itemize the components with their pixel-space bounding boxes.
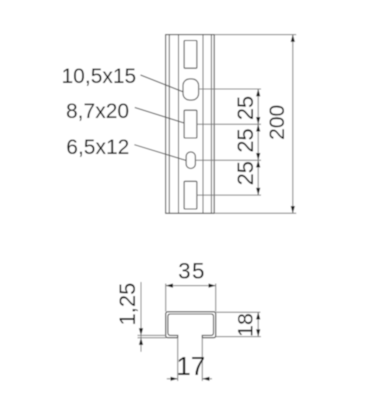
oval hole 6,5x12 — [186, 152, 195, 169]
arrow pair at 160.2 — [256, 153, 260, 160]
extension line 17 left — [177, 338, 179, 381]
arrow right 35 — [209, 284, 216, 288]
arrow down to 1,25 upper — [139, 328, 143, 335]
arrow down 18 — [256, 329, 260, 336]
slot hole 8,7x20 bottom — [184, 181, 197, 209]
dimension line 17 left segment — [167, 378, 178, 380]
svg-text:10,5x15: 10,5x15 — [62, 65, 137, 88]
extension line 18 top — [216, 311, 260, 313]
extension line 17 right — [201, 338, 203, 381]
rail inner right edge line — [210, 35, 212, 214]
rail inner left edge line — [168, 35, 170, 214]
svg-text:25: 25 — [233, 96, 258, 120]
svg-text:1,25: 1,25 — [115, 283, 140, 326]
extension line rail top to 200 dim — [215, 34, 297, 36]
rail outer left edge line — [165, 35, 167, 214]
arrow up 18 — [256, 312, 260, 319]
rail left fold line — [178, 35, 180, 214]
extension line 1,25 lower — [138, 337, 167, 339]
arrow up to 1,25 lower — [139, 338, 143, 345]
rail right fold line — [202, 35, 204, 214]
extension line from round hole center — [199, 88, 261, 90]
slot hole 8,7x20 top — [184, 41, 197, 69]
svg-text:18: 18 — [234, 313, 258, 337]
rail top edge — [165, 34, 214, 36]
arrow up at 89 — [256, 89, 260, 96]
rail outer right edge line — [213, 35, 215, 214]
extension line from bottom slot center — [197, 194, 261, 196]
extension line 18 bottom — [216, 336, 261, 338]
arrow up at 200 top — [291, 35, 295, 42]
profile outline — [166, 312, 216, 338]
arrow pair at 124.3 — [256, 117, 260, 124]
arrow down at 195.1 — [256, 188, 260, 195]
slot hole 8,7x20 middle — [184, 110, 197, 138]
dimension line 1,25 vertical — [140, 282, 142, 352]
svg-text:200: 200 — [266, 105, 289, 140]
arrow down at 200 bottom — [291, 206, 295, 213]
leader line from label 8,7x20 to middle slot — [135, 108, 184, 124]
extension line 35 left — [165, 284, 167, 312]
svg-text:17: 17 — [176, 351, 205, 381]
arrow left 35 — [166, 284, 173, 288]
dimension line 17 right segment — [202, 378, 212, 380]
arrow right 17 — [171, 377, 178, 381]
dimension line 18 — [257, 312, 259, 336]
dimension line 200 — [292, 35, 294, 214]
extension line from middle slot center — [197, 123, 261, 125]
extension line from oval hole center — [196, 159, 261, 161]
extension line 35 right — [215, 284, 217, 312]
svg-text:35: 35 — [178, 259, 206, 284]
svg-text:8,7x20: 8,7x20 — [66, 100, 129, 123]
dimension line 35 — [166, 285, 216, 287]
svg-text:6,5x12: 6,5x12 — [66, 136, 129, 159]
rail bottom edge — [165, 212, 214, 214]
svg-text:25: 25 — [233, 161, 258, 185]
svg-text:25: 25 — [233, 128, 258, 152]
round hole 10,5x15 — [183, 79, 199, 100]
extension line 1,25 upper — [138, 334, 167, 336]
arrow left 17 — [202, 377, 209, 381]
leader line from label 6,5x12 to oval hole — [134, 145, 186, 161]
extension line rail bottom to 200 dim — [215, 212, 297, 214]
dimension line 25 chain — [257, 89, 259, 195]
leader line from label 10,5x15 to round hole — [141, 75, 184, 92]
